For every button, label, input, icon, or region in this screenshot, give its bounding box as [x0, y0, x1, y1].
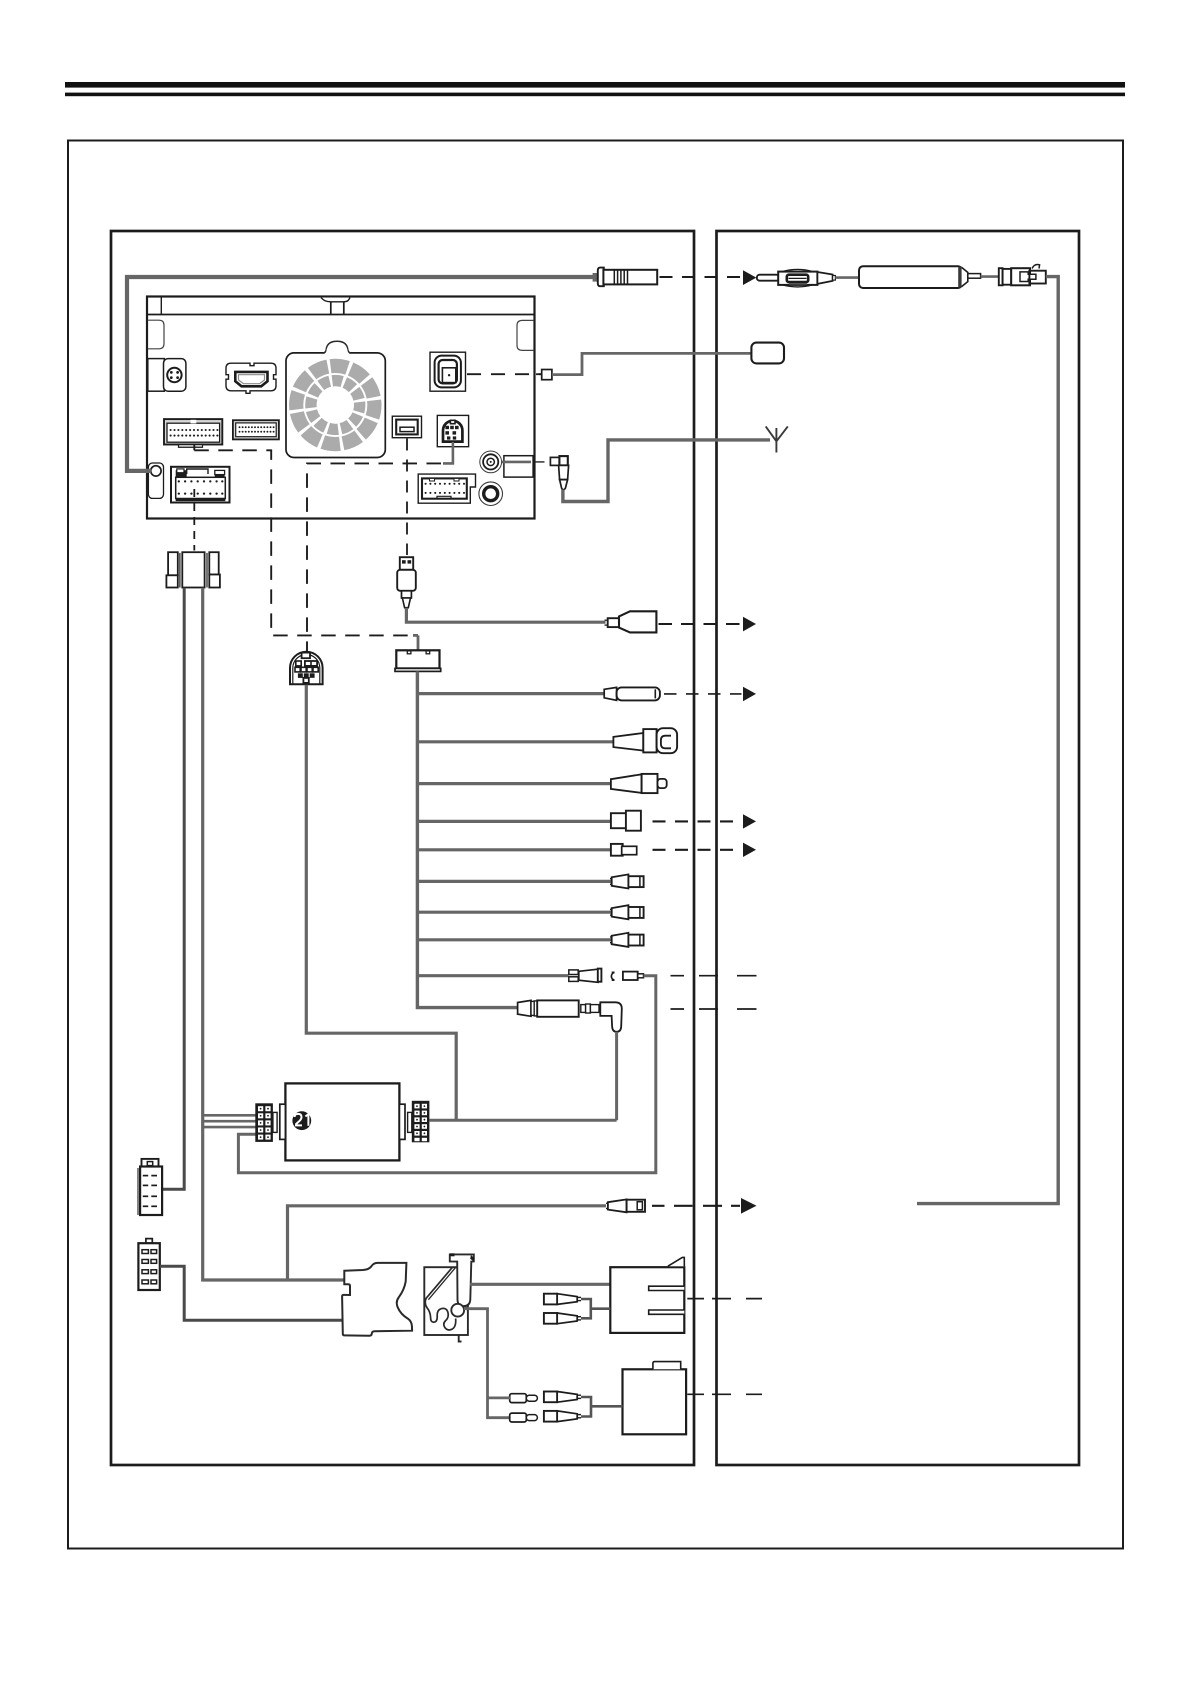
spade pair upper row 1	[544, 1294, 581, 1305]
parking brake wire upper	[470, 1283, 610, 1286]
dashed link antenna jack to adapter	[660, 276, 742, 278]
dashed link parking lead	[652, 1205, 740, 1207]
dashed stub remote pair	[671, 975, 757, 977]
arrow video	[743, 687, 756, 701]
antenna jack plate on unit	[148, 463, 163, 498]
ISO antenna male plug pin	[757, 275, 780, 281]
HDMI inner receptacle	[235, 372, 267, 386]
breakout box at unit edge	[504, 456, 533, 477]
fuse holder connector 2	[138, 1239, 159, 1290]
interface pigtail wires	[204, 1114, 256, 1117]
dashed link 24pin to system connector	[193, 445, 195, 451]
interface box wire right	[430, 1119, 617, 1122]
branch wire speed pulse connector	[417, 848, 611, 851]
bullet pair lower row 2	[510, 1411, 581, 1422]
steering remote wire	[306, 685, 456, 1120]
dashed link harness to power block	[193, 489, 195, 551]
branch wire video coupler	[417, 692, 604, 695]
antenna female jack body	[603, 270, 657, 285]
interface left pin connector	[255, 1103, 277, 1142]
parking brake lever unit	[424, 1253, 474, 1341]
top-right corner bracket	[517, 320, 534, 350]
reverse gear connector	[611, 813, 627, 828]
video extension coupler	[604, 687, 616, 700]
harness trunk wire	[417, 671, 517, 1007]
24-pin connector A on unit	[164, 419, 222, 444]
branch wire bullet lead 2	[417, 911, 611, 914]
wire to JASO connector	[981, 275, 999, 278]
in-line AV mini jack coupler	[518, 1000, 531, 1016]
dashed link relay upper	[687, 1298, 762, 1300]
4-pin round connector module	[148, 359, 165, 392]
spade bus lower	[581, 1397, 623, 1417]
head unit inner top line	[147, 314, 535, 316]
fuse holder connector 1	[138, 1159, 162, 1215]
right panel box	[717, 231, 1080, 1465]
steering remote D connector	[290, 652, 323, 685]
outer border frame	[68, 141, 1123, 1549]
car radio antenna symbol	[766, 426, 788, 452]
bullet pair lower row 1	[510, 1392, 581, 1403]
in-line antenna amplifier body	[859, 266, 962, 288]
dashed link coupler to vehicle	[664, 693, 742, 695]
branch wire reverse connector	[417, 820, 611, 823]
fan blades inner ring	[308, 378, 362, 432]
aux connector plug	[611, 774, 642, 793]
left panel box	[111, 231, 694, 1465]
power connector block	[182, 552, 204, 587]
ISO antenna male plug body	[782, 269, 813, 271]
square connector port (top right of unit)	[430, 352, 466, 391]
branch wire aux connector	[417, 782, 611, 785]
20-pin connector B on unit	[233, 420, 279, 439]
round DIN port on unit	[437, 415, 468, 446]
branch wire bullet lead 1	[417, 880, 611, 883]
arrow parking	[741, 1198, 757, 1214]
wire from crimp terminal to car antenna mark	[563, 440, 770, 502]
circled 21 label	[292, 1111, 311, 1130]
dashed link DIN to steering remote connector	[307, 463, 441, 652]
arrow reverse	[743, 814, 756, 828]
bullet lead 1	[610, 874, 644, 888]
top rule bar thick	[65, 82, 1125, 88]
wire DIN port pigtail	[443, 442, 453, 463]
USB plug wire	[406, 608, 605, 623]
remote in bullet plug	[611, 972, 614, 980]
ISO plug cone	[817, 272, 832, 284]
antenna jack nut circle	[147, 469, 152, 473]
main harness connector on unit (bottom left)	[171, 467, 230, 503]
camera connector plug	[613, 733, 643, 751]
wire to amplifier body	[835, 276, 859, 279]
fan blades outer ring	[292, 361, 379, 448]
HDMI port outer shield	[226, 363, 276, 393]
spade bus upper	[581, 1299, 610, 1318]
dashed stub mini jack	[671, 1008, 757, 1010]
remote pair wire to interface	[238, 976, 655, 1173]
relay connector lower	[623, 1369, 687, 1434]
bullet lead 3	[610, 933, 644, 947]
dashed link USB coupler to vehicle	[659, 623, 742, 625]
top rule bar thin	[65, 93, 1125, 97]
interface right pin connector	[408, 1101, 430, 1143]
RCA jack upper (video out)	[480, 451, 502, 473]
dashed link reverse to vehicle	[653, 820, 742, 822]
bullet stub left row1	[488, 1397, 511, 1400]
mini jack wire down	[615, 1032, 618, 1121]
cradle bracket connector	[342, 1263, 412, 1336]
GPS antenna block	[751, 343, 784, 364]
dashed link RCA to crimp terminal	[536, 461, 550, 463]
speed pulse connector	[611, 844, 623, 856]
interface left bracket	[280, 1104, 286, 1139]
dashed link relay lower	[687, 1393, 762, 1395]
system connector block	[413, 634, 418, 637]
power wire right (main trunk)	[203, 588, 345, 1280]
bullet plug parking lead	[288, 1206, 607, 1280]
branch wire bullet lead 3	[417, 938, 611, 941]
16-pin connector on unit (bottom right)	[418, 474, 475, 503]
power wire left (to fuse holder)	[163, 588, 185, 1189]
parking brake wire lower	[464, 1309, 510, 1418]
spade pair upper row 2	[544, 1313, 581, 1324]
GPS pigtail square	[542, 370, 552, 380]
dashed link USB port to USB plug	[406, 439, 408, 556]
antenna extension wire down right panel	[917, 277, 1058, 1204]
USB male plug	[400, 557, 413, 570]
mini jack right-angle plug	[581, 1005, 586, 1013]
bullet lead 2	[610, 905, 644, 919]
dashed link unit to GPS pigtail	[536, 373, 541, 375]
RCA jack lower	[479, 482, 503, 506]
top-left corner bracket	[148, 320, 164, 349]
arrow USB	[743, 617, 756, 632]
relay connector upper	[610, 1267, 684, 1333]
top tab bump	[321, 298, 350, 302]
USB female coupler	[608, 618, 619, 627]
branch wire remote pair	[417, 974, 568, 977]
remote out spade plug	[569, 970, 578, 975]
fuse holder 2 wire	[160, 1266, 342, 1320]
antenna lead wire from unit	[127, 277, 594, 471]
interface box 21	[285, 1083, 399, 1160]
fan frame	[286, 353, 385, 458]
USB port on unit	[392, 416, 421, 438]
head unit rear chassis	[147, 297, 535, 519]
antenna female jack cap	[593, 273, 600, 282]
arrow speed pulse	[743, 843, 756, 857]
arrow antenna	[743, 270, 756, 285]
dashed link speed pulse to vehicle	[653, 849, 742, 851]
dashed link square connector to GPS lead	[467, 373, 541, 375]
branch wire camera connector	[417, 740, 614, 743]
top tab column	[330, 302, 332, 315]
JASO antenna connector	[999, 268, 1003, 285]
crimp terminal plug	[550, 457, 559, 465]
GPS antenna wire	[552, 353, 751, 374]
interface right bracket	[399, 1104, 405, 1139]
